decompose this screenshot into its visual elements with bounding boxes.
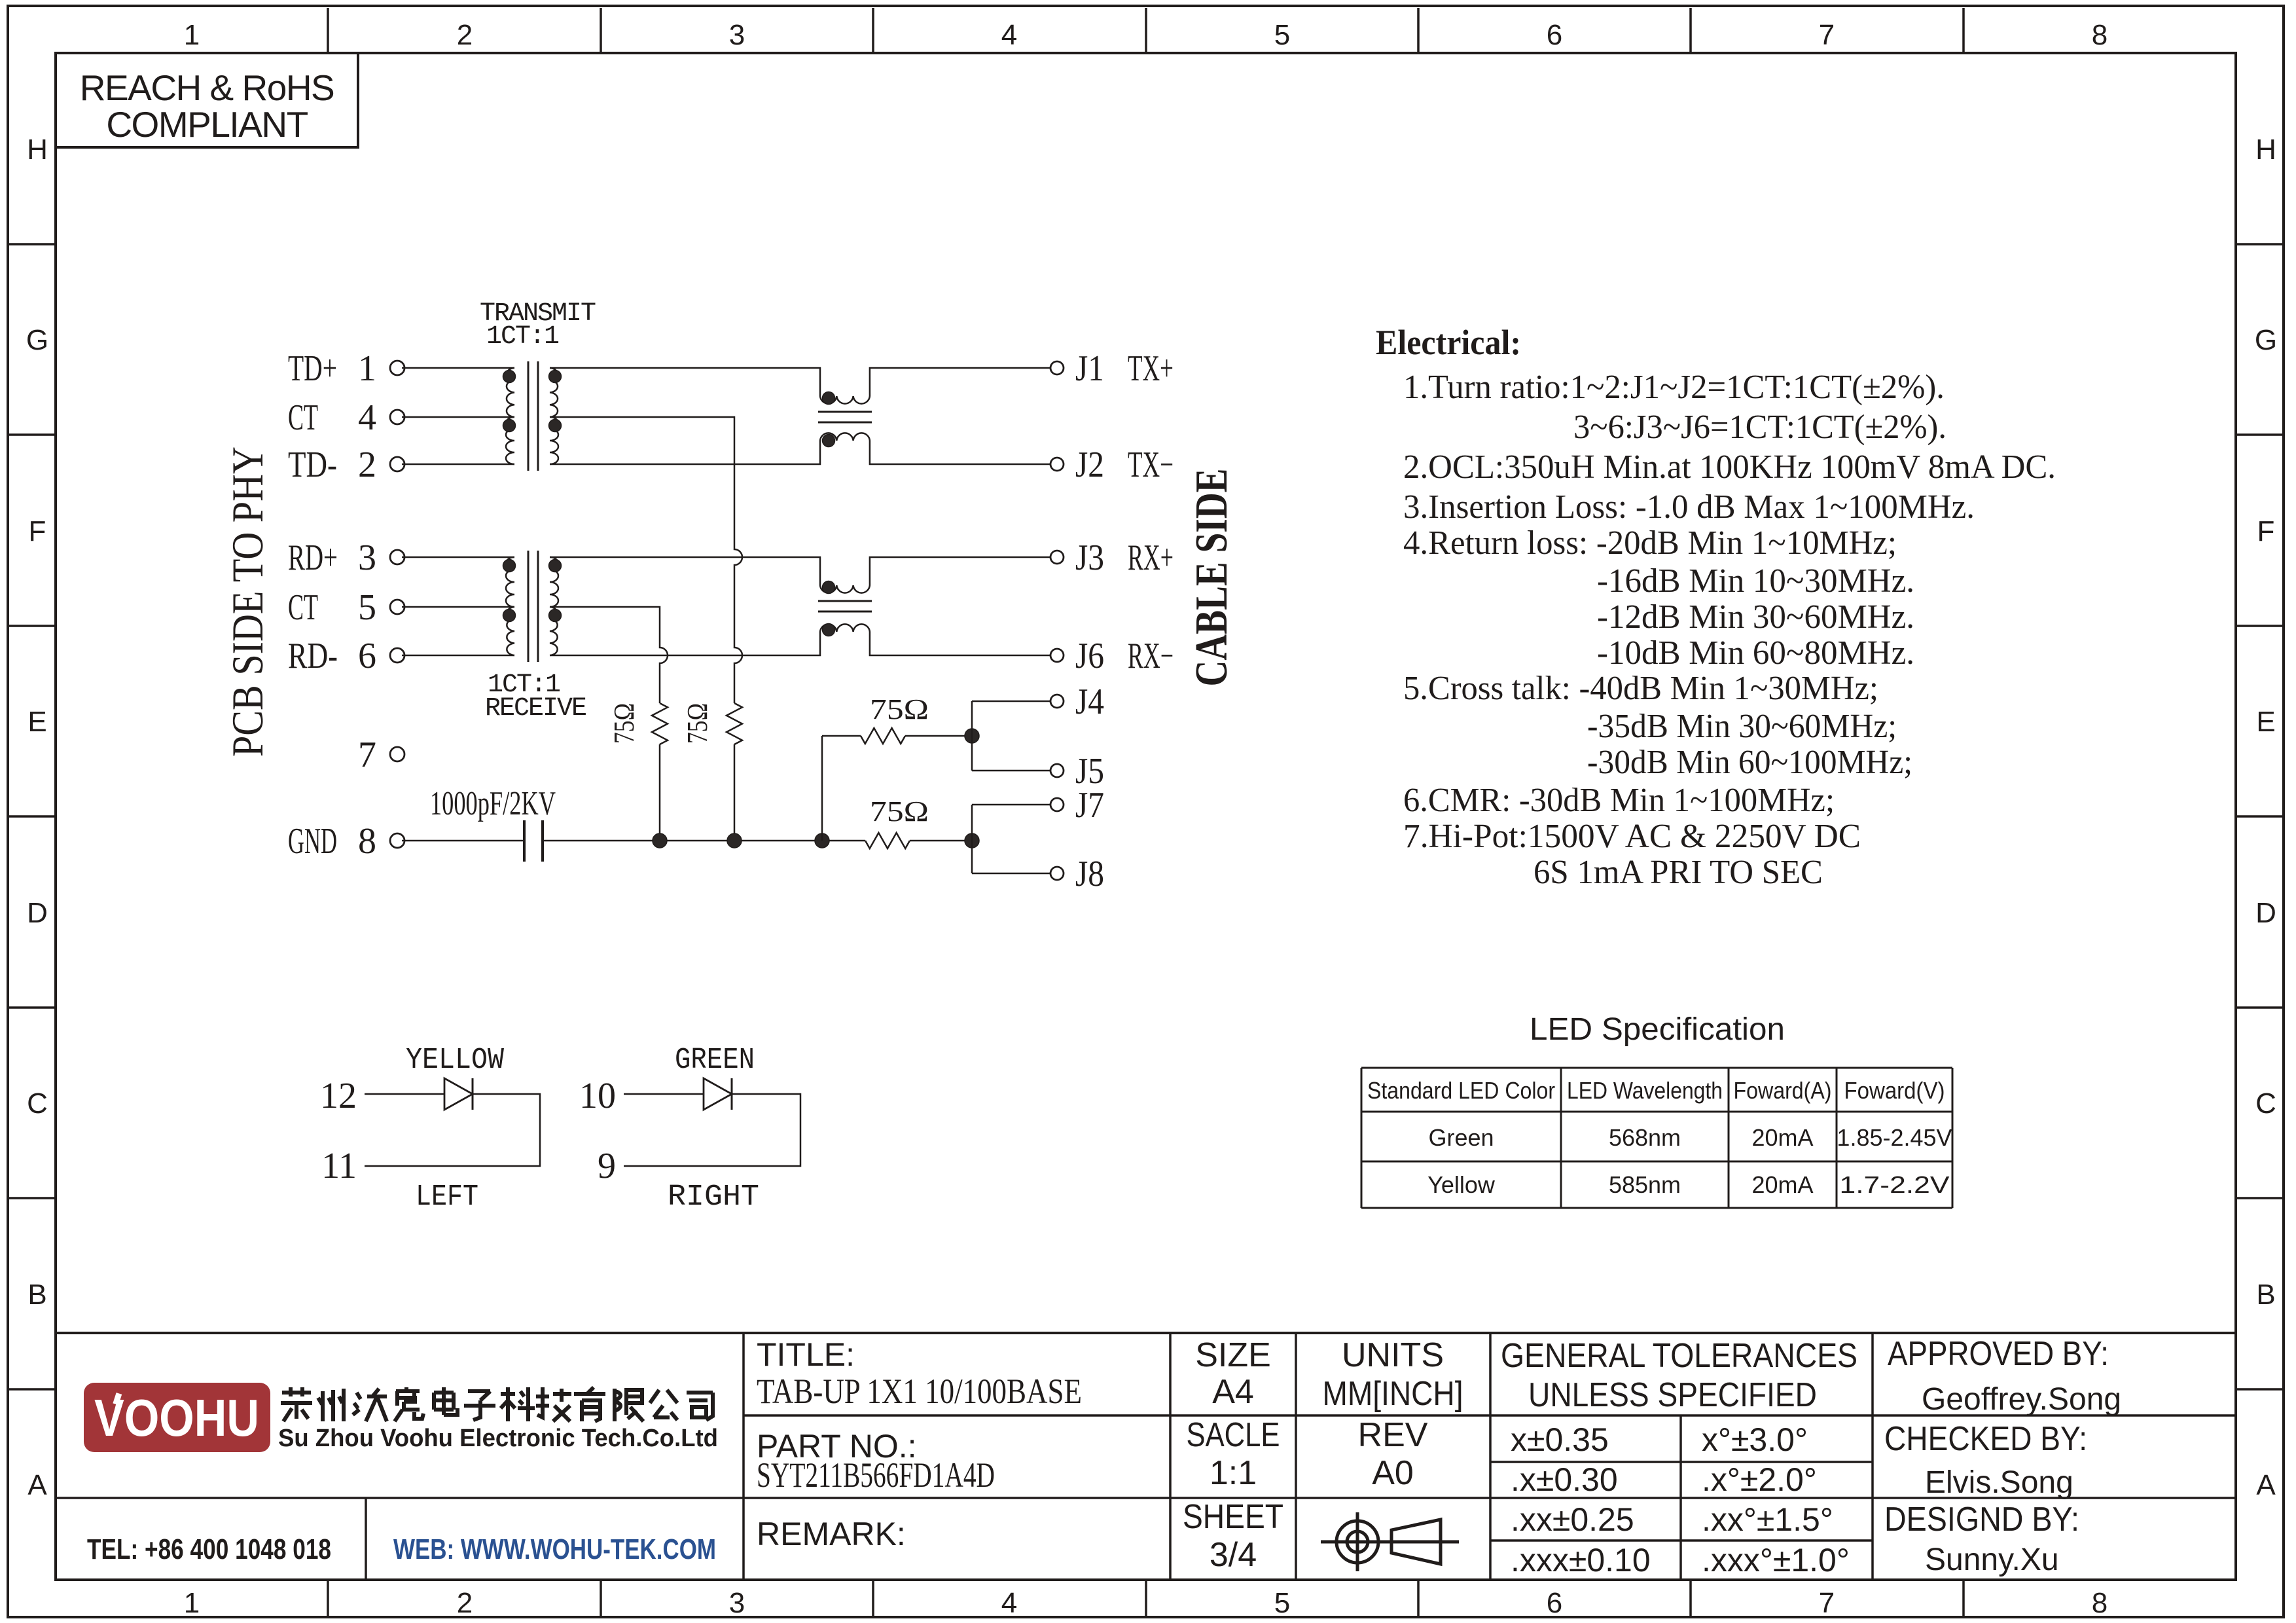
svg-text:SYT211B566FD1A4D: SYT211B566FD1A4D xyxy=(757,1455,995,1495)
svg-text:MM[INCH]: MM[INCH] xyxy=(1323,1375,1463,1413)
svg-text:G: G xyxy=(2255,324,2277,356)
T2 secondary winding xyxy=(550,557,558,655)
svg-text:TD-: TD- xyxy=(288,445,337,485)
svg-text:H: H xyxy=(2255,134,2276,166)
wire pin 4 to transformer xyxy=(402,416,514,418)
svg-text:2.OCL:350uH Min.at 100KHz 100m: 2.OCL:350uH Min.at 100KHz 100mV 8mA DC. xyxy=(1403,448,2056,486)
wire J7/J8 vertical xyxy=(971,805,973,873)
pin 2 TD- xyxy=(288,445,404,485)
svg-text:.xxx°±1.0°: .xxx°±1.0° xyxy=(1702,1542,1850,1578)
REACH and RoHS compliance box xyxy=(56,53,358,147)
wire pin 5 to transformer xyxy=(402,606,514,608)
wire T2 secondary center tap down to resistor R1, hops over J6 line xyxy=(550,607,668,703)
junction J4/J5 xyxy=(965,729,979,743)
pin 4 CT xyxy=(288,397,404,438)
LED D2 GREEN pin 10 / pin 9 RIGHT xyxy=(579,1044,800,1214)
junction J7/J8 xyxy=(965,833,979,848)
svg-text:3~6:J3~J6=1CT:1CT(±2%).: 3~6:J3~J6=1CT:1CT(±2%). xyxy=(1573,409,1946,446)
svg-text:12: 12 xyxy=(320,1076,357,1116)
svg-text:REV: REV xyxy=(1358,1416,1428,1454)
svg-text:Elvis.Song: Elvis.Song xyxy=(1925,1465,2073,1500)
svg-text:UNITS: UNITS xyxy=(1342,1336,1444,1374)
svg-text:D: D xyxy=(27,897,48,929)
svg-text:x°±3.0°: x°±3.0° xyxy=(1702,1421,1808,1458)
svg-text:RD-: RD- xyxy=(288,636,338,676)
T2 secondary phase dots xyxy=(549,560,562,572)
pin J1 xyxy=(1050,348,1174,389)
svg-text:COMPLIANT: COMPLIANT xyxy=(106,104,308,145)
svg-text:RX−: RX− xyxy=(1128,636,1174,676)
wire riser from ground rail up to R3 xyxy=(821,736,823,841)
svg-text:.x±0.30: .x±0.30 xyxy=(1511,1461,1618,1498)
svg-text:TD+: TD+ xyxy=(288,348,337,389)
svg-text:E: E xyxy=(27,706,46,738)
VOOHU logo xyxy=(84,1383,270,1452)
title block grid xyxy=(56,1333,2236,1580)
wire pin 1 to transformer xyxy=(402,367,514,369)
svg-text:A0: A0 xyxy=(1372,1454,1414,1492)
svg-text:H: H xyxy=(27,134,48,166)
svg-text:1: 1 xyxy=(184,1587,200,1619)
wire R3 to J4/J5 junction xyxy=(905,735,972,737)
svg-text:75Ω: 75Ω xyxy=(681,703,713,744)
svg-text:CHECKED BY:: CHECKED BY: xyxy=(1884,1420,2087,1458)
svg-text:A4: A4 xyxy=(1212,1373,1254,1411)
transformer T2 RECEIVE primary winding xyxy=(506,557,514,655)
resistor R1 75ohm vertical xyxy=(652,703,668,744)
svg-text:CT: CT xyxy=(288,397,318,438)
svg-text:-16dB Min 10~30MHz.: -16dB Min 10~30MHz. xyxy=(1597,562,1914,600)
svg-text:LEFT: LEFT xyxy=(416,1180,478,1214)
svg-text:75Ω: 75Ω xyxy=(870,795,929,828)
electrical notes text xyxy=(1403,369,2056,891)
svg-text:TEL: +86 400 1048 018: TEL: +86 400 1048 018 xyxy=(87,1533,331,1565)
svg-text:RX+: RX+ xyxy=(1128,538,1174,578)
svg-text:Green: Green xyxy=(1428,1124,1494,1151)
svg-text:5.Cross talk: -40dB Min 1~30MH: 5.Cross talk: -40dB Min 1~30MHz; xyxy=(1403,670,1878,707)
wire R2 bottom to ground rail xyxy=(734,744,736,841)
svg-text:A: A xyxy=(27,1469,47,1501)
pin J6 xyxy=(1050,636,1174,676)
svg-text:1:1: 1:1 xyxy=(1210,1454,1257,1492)
T1 primary phase dots xyxy=(503,371,516,383)
svg-text:WEB: WWW.WOHU-TEK.COM: WEB: WWW.WOHU-TEK.COM xyxy=(393,1533,716,1565)
svg-text:20mA: 20mA xyxy=(1751,1171,1813,1198)
svg-text:B: B xyxy=(27,1279,46,1311)
svg-text:6: 6 xyxy=(1547,19,1562,51)
wire T2 secondary bottom to choke L2 and J6, with choke bottom coil xyxy=(550,624,1050,655)
svg-text:.xxx±0.10: .xxx±0.10 xyxy=(1511,1542,1651,1578)
svg-text:5: 5 xyxy=(1274,19,1290,51)
svg-text:B: B xyxy=(2256,1279,2275,1311)
svg-text:.xx±0.25: .xx±0.25 xyxy=(1511,1501,1634,1538)
svg-text:568nm: 568nm xyxy=(1609,1124,1681,1151)
svg-text:TAB-UP 1X1 10/100BASE: TAB-UP 1X1 10/100BASE xyxy=(757,1372,1082,1411)
pin 8 GND xyxy=(288,821,404,862)
svg-text:SHEET: SHEET xyxy=(1183,1498,1283,1536)
svg-text:J3: J3 xyxy=(1075,538,1104,578)
svg-text:2: 2 xyxy=(457,1587,473,1619)
resistor R3 75ohm horizontal xyxy=(861,728,905,744)
svg-text:4.Return loss: -20dB Min 1~10M: 4.Return loss: -20dB Min 1~10MHz; xyxy=(1403,524,1897,562)
wire R1 bottom to ground rail xyxy=(659,744,661,841)
svg-text:3: 3 xyxy=(729,19,745,51)
svg-text:Electrical:: Electrical: xyxy=(1376,323,1521,362)
pin J5 xyxy=(1050,751,1104,792)
svg-text:.x°±2.0°: .x°±2.0° xyxy=(1702,1461,1817,1498)
ground rail from capacitor to resistor R4 xyxy=(543,840,865,842)
svg-text:1: 1 xyxy=(184,19,200,51)
tolerance values xyxy=(1511,1421,1850,1578)
pin J4 xyxy=(1050,682,1104,722)
svg-text:F: F xyxy=(2257,515,2275,547)
wire T2 secondary top to choke L2 and J3, with choke top coil xyxy=(550,557,1050,593)
svg-text:Foward(V): Foward(V) xyxy=(1844,1077,1945,1104)
pin 3 RD+ xyxy=(288,538,404,578)
svg-text:3: 3 xyxy=(358,538,376,578)
pin 1 TD+ xyxy=(288,348,404,389)
svg-text:UNLESS SPECIFIED: UNLESS SPECIFIED xyxy=(1528,1376,1817,1414)
svg-text:D: D xyxy=(2255,897,2276,929)
resistor R4 75ohm on ground rail xyxy=(865,833,910,848)
pin J8 xyxy=(1050,854,1104,894)
svg-text:6.CMR: -30dB Min 1~100MHz;: 6.CMR: -30dB Min 1~100MHz; xyxy=(1403,782,1835,819)
T1 secondary phase dots xyxy=(549,371,562,383)
wire to J4 xyxy=(972,701,1050,702)
junction ground rail / R2 xyxy=(727,833,742,848)
svg-text:8: 8 xyxy=(2092,19,2108,51)
svg-text:CT: CT xyxy=(288,587,318,628)
svg-text:RD+: RD+ xyxy=(288,538,338,578)
T2 primary phase dots xyxy=(503,560,516,572)
svg-text:4: 4 xyxy=(358,397,376,438)
wire J4/J5 vertical xyxy=(971,701,973,771)
resistor R2 75ohm vertical xyxy=(726,703,742,744)
svg-text:1: 1 xyxy=(358,348,376,389)
capacitor C1 1000pF/2KV xyxy=(524,820,543,862)
svg-text:6S 1mA PRI TO SEC: 6S 1mA PRI TO SEC xyxy=(1534,854,1823,891)
svg-text:Su Zhou Voohu Electronic Tech.: Su Zhou Voohu Electronic Tech.Co.Ltd xyxy=(278,1425,718,1452)
svg-text:3: 3 xyxy=(729,1587,745,1619)
choke L1 core xyxy=(818,411,872,413)
svg-text:J8: J8 xyxy=(1075,854,1104,894)
svg-text:REACH & RoHS: REACH & RoHS xyxy=(80,67,334,108)
svg-text:-30dB Min 60~100MHz;: -30dB Min 60~100MHz; xyxy=(1587,744,1912,781)
svg-text:GREEN: GREEN xyxy=(675,1044,755,1077)
svg-text:75Ω: 75Ω xyxy=(608,703,640,744)
svg-text:Yellow: Yellow xyxy=(1427,1171,1496,1198)
svg-text:7: 7 xyxy=(1819,1587,1835,1619)
svg-text:2: 2 xyxy=(457,19,473,51)
svg-text:7: 7 xyxy=(358,735,376,775)
svg-text:x±0.35: x±0.35 xyxy=(1511,1421,1609,1458)
svg-text:11: 11 xyxy=(321,1146,357,1186)
svg-text:3/4: 3/4 xyxy=(1210,1536,1257,1574)
svg-text:SIZE: SIZE xyxy=(1195,1336,1271,1374)
wire to J8 xyxy=(972,873,1050,875)
svg-text:F: F xyxy=(29,515,46,547)
transformer T1 TRANSMIT primary winding xyxy=(506,368,514,464)
svg-text:20mA: 20mA xyxy=(1751,1124,1813,1151)
svg-text:8: 8 xyxy=(2092,1587,2108,1619)
svg-text:E: E xyxy=(2256,706,2275,738)
svg-text:-12dB Min 30~60MHz.: -12dB Min 30~60MHz. xyxy=(1597,598,1914,636)
svg-text:6: 6 xyxy=(358,636,376,676)
svg-text:5: 5 xyxy=(1274,1587,1290,1619)
svg-text:4: 4 xyxy=(1001,1587,1017,1619)
svg-text:7: 7 xyxy=(1819,19,1835,51)
svg-text:GND: GND xyxy=(288,821,337,862)
svg-text:LED Specification: LED Specification xyxy=(1530,1012,1785,1047)
svg-text:Sunny.Xu: Sunny.Xu xyxy=(1925,1542,2059,1577)
svg-text:C: C xyxy=(2255,1087,2276,1120)
svg-text:5: 5 xyxy=(358,587,376,628)
svg-text:3.Insertion Loss: -1.0 dB Max: 3.Insertion Loss: -1.0 dB Max 1~100MHz. xyxy=(1403,488,1975,526)
svg-text:1CT:1: 1CT:1 xyxy=(486,322,559,352)
svg-text:G: G xyxy=(26,324,48,356)
pin J3 xyxy=(1050,538,1174,578)
wire T1 secondary bottom to choke L1 and J2, with choke bottom coil xyxy=(550,433,1050,464)
pin 5 CT xyxy=(288,587,404,628)
svg-text:TITLE:: TITLE: xyxy=(757,1336,855,1373)
svg-text:10: 10 xyxy=(579,1076,616,1116)
svg-text:7.Hi-Pot:1500V AC & 2250V DC: 7.Hi-Pot:1500V AC & 2250V DC xyxy=(1403,818,1861,855)
third angle projection symbol xyxy=(1321,1512,1459,1571)
pin 7 xyxy=(358,735,404,775)
L2 phase dots xyxy=(823,581,835,594)
svg-text:Geoffrey.Song: Geoffrey.Song xyxy=(1922,1382,2121,1417)
svg-text:PCB SIDE TO PHY: PCB SIDE TO PHY xyxy=(223,447,272,757)
svg-text:C: C xyxy=(27,1087,48,1120)
svg-text:9: 9 xyxy=(598,1146,616,1186)
svg-text:2: 2 xyxy=(358,445,376,485)
svg-text:J1: J1 xyxy=(1075,348,1104,389)
junction ground rail / riser to R3 xyxy=(815,833,829,848)
T1 secondary winding xyxy=(550,368,558,464)
svg-text:Foward(A): Foward(A) xyxy=(1734,1077,1832,1104)
LED D1 YELLOW pin 12 / pin 11 LEFT xyxy=(320,1044,540,1214)
LED specification table xyxy=(1361,1068,1952,1208)
svg-text:585nm: 585nm xyxy=(1609,1171,1681,1198)
svg-text:1.85-2.45V: 1.85-2.45V xyxy=(1837,1124,1952,1151)
pin J7 xyxy=(1050,785,1104,826)
L1 phase dots xyxy=(823,392,835,405)
svg-text:TX+: TX+ xyxy=(1128,348,1174,389)
svg-text:75Ω: 75Ω xyxy=(870,693,929,725)
wire T1 secondary top to choke L1 and J1, with choke top coil xyxy=(550,368,1050,404)
svg-text:REMARK:: REMARK: xyxy=(757,1516,906,1552)
svg-text:J7: J7 xyxy=(1075,785,1104,826)
company name Chinese characters xyxy=(281,1387,713,1421)
wire to J7 xyxy=(972,804,1050,806)
svg-text:YELLOW: YELLOW xyxy=(406,1044,504,1077)
T2 core xyxy=(528,551,529,662)
pin J2 xyxy=(1050,445,1174,485)
wire pin 8 to capacitor C1 xyxy=(402,840,524,842)
svg-text:4: 4 xyxy=(1001,19,1017,51)
svg-text:LED Wavelength: LED Wavelength xyxy=(1567,1077,1723,1104)
svg-text:-35dB Min 30~60MHz;: -35dB Min 30~60MHz; xyxy=(1587,708,1897,745)
wire to J5 xyxy=(972,770,1050,772)
svg-text:RECEIVE: RECEIVE xyxy=(485,694,586,723)
label 1CT:1 RECEIVE xyxy=(485,670,586,723)
choke L2 core xyxy=(818,600,872,602)
svg-text:DESIGND BY:: DESIGND BY: xyxy=(1884,1501,2079,1539)
svg-text:J4: J4 xyxy=(1075,682,1104,722)
wire pin 2 to transformer xyxy=(402,464,514,465)
svg-text:A: A xyxy=(2256,1469,2276,1501)
svg-text:J6: J6 xyxy=(1075,636,1104,676)
svg-text:Standard LED Color: Standard LED Color xyxy=(1367,1077,1555,1104)
junction ground rail / R1 xyxy=(653,833,667,848)
svg-text:8: 8 xyxy=(358,821,376,862)
svg-text:1.Turn ratio:1~2:J1~J2=1CT:1CT: 1.Turn ratio:1~2:J1~J2=1CT:1CT(±2%). xyxy=(1403,369,1945,406)
wire T1 secondary center tap down to resistor R2, hops over J3 and J6 lines xyxy=(550,417,742,703)
wire R4 to J7/J8 junction xyxy=(910,840,972,842)
svg-text:1000pF/2KV: 1000pF/2KV xyxy=(430,785,556,822)
svg-text:RIGHT: RIGHT xyxy=(668,1180,759,1214)
svg-text:J2: J2 xyxy=(1075,445,1104,485)
svg-text:-10dB Min 60~80MHz.: -10dB Min 60~80MHz. xyxy=(1597,634,1914,672)
svg-text:GENERAL TOLERANCES: GENERAL TOLERANCES xyxy=(1501,1337,1857,1375)
label TRANSMIT 1CT:1 xyxy=(480,299,596,352)
pin 6 RD- xyxy=(288,636,404,676)
wire pin 6 to transformer xyxy=(402,655,514,657)
T1 core xyxy=(528,361,529,471)
svg-text:APPROVED BY:: APPROVED BY: xyxy=(1888,1335,2109,1373)
svg-text:TX−: TX− xyxy=(1128,445,1174,485)
svg-text:1.7-2.2V: 1.7-2.2V xyxy=(1840,1171,1950,1198)
svg-text:.xx°±1.5°: .xx°±1.5° xyxy=(1702,1501,1833,1538)
svg-text:CABLE SIDE: CABLE SIDE xyxy=(1187,469,1237,687)
wire pin 3 to transformer xyxy=(402,556,514,558)
svg-text:6: 6 xyxy=(1547,1587,1562,1619)
svg-text:SACLE: SACLE xyxy=(1187,1416,1280,1454)
wire R3 feed xyxy=(822,735,861,737)
